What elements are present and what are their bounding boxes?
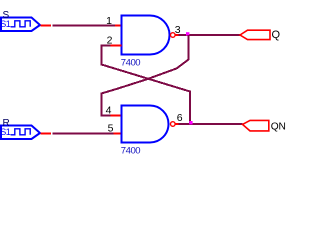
pin stub gate U2 pin 5 [114,133,122,135]
svg-text:6: 6 [177,112,183,124]
pin stub U2 pin 4 (red) [110,115,121,117]
pin stub U1 pin 2 (red) [110,45,121,47]
stimulus source S1 (R input) [0,126,40,140]
junction node Q [186,32,189,35]
wire S net (maroon) [53,25,116,27]
svg-text:R: R [3,118,10,129]
wire feedback B: Q down to pin 4 [101,35,188,116]
pin stub U2 pin 6 (red) [175,123,178,125]
pin stub gate U1 pin 1 [115,25,122,27]
pin stub U1 pin 3 (red) [175,34,178,36]
wire R net (maroon) [53,133,114,135]
svg-text:QN: QN [271,122,286,133]
NAND gate U2 (7400) [122,106,169,143]
stimulus source S1 (S input) [0,18,40,32]
svg-text:1: 1 [106,15,112,27]
pulse waveform icon (R source) [11,129,31,135]
NAND gate U1 (7400) [122,16,170,55]
output tag QN [243,120,269,130]
svg-text:Q: Q [272,29,281,41]
wire S source to pin 1 (red stub) [41,25,52,27]
inversion bubble U1 output [171,33,176,38]
svg-text:4: 4 [106,104,112,116]
output tag Q [240,30,270,39]
svg-text:7400: 7400 [121,145,141,156]
wire feedback A: QN up to pin 2 [102,46,191,124]
svg-text:7400: 7400 [121,57,141,68]
svg-text:S: S [3,10,10,21]
wire QN net (maroon, output to tag) [179,123,243,125]
inversion bubble U2 output [171,122,176,127]
pulse waveform icon [11,21,31,27]
wire Q net (maroon, output to tag) [179,34,241,36]
junction node QN [189,121,192,124]
svg-text:5: 5 [108,122,114,134]
wire R source to pin 5 (red stub) [41,133,52,135]
